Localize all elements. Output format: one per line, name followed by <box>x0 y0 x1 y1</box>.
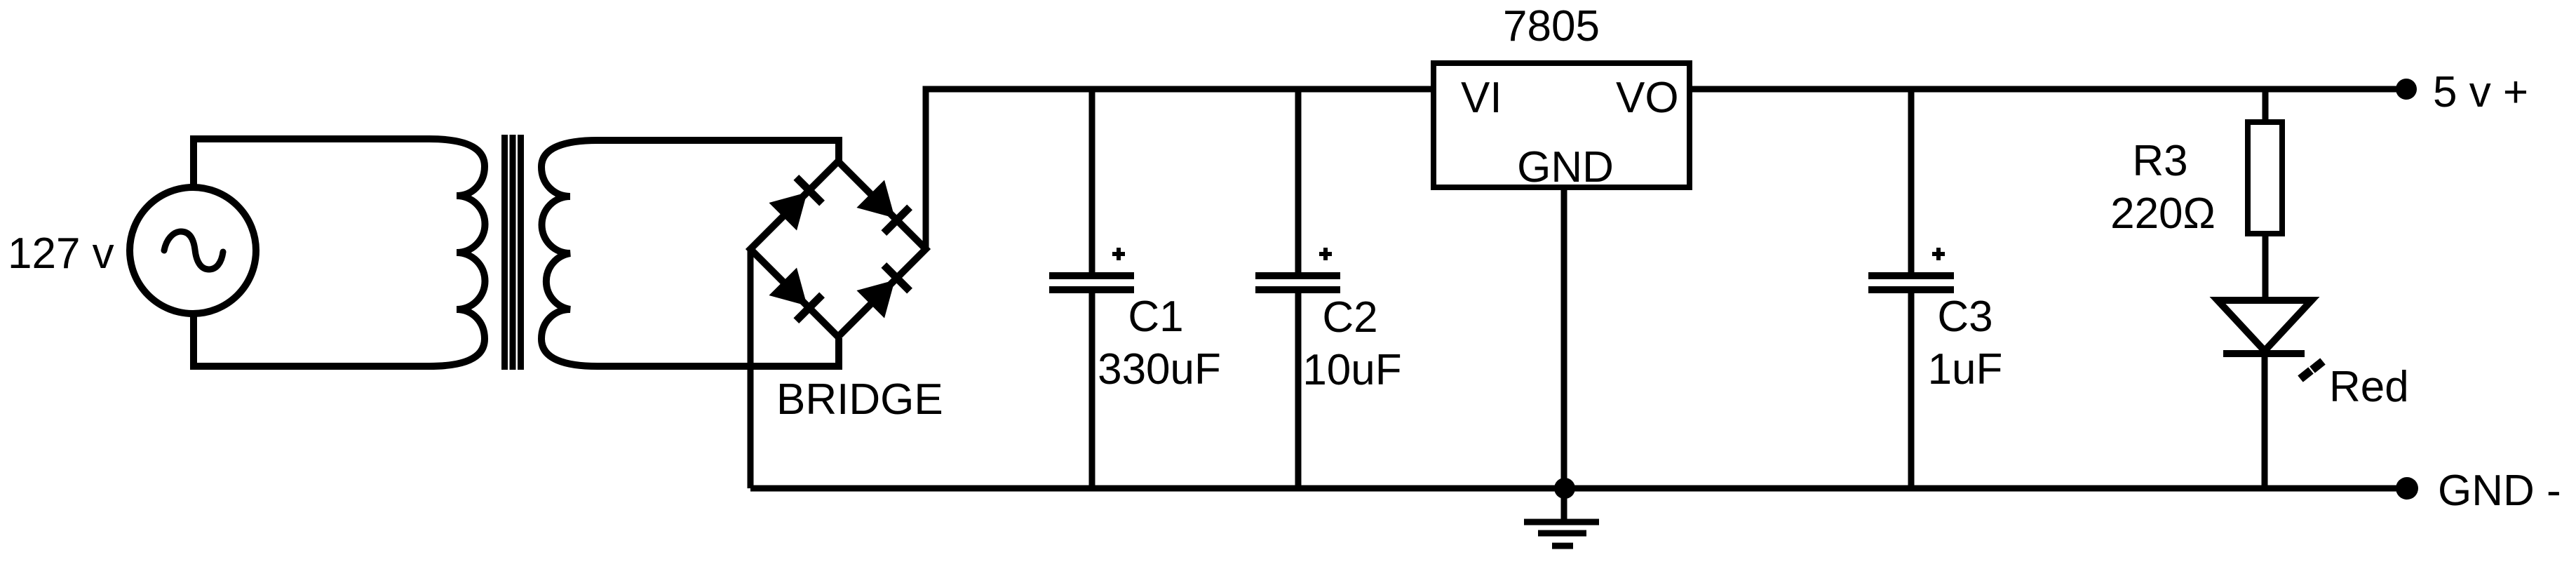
capacitor C2 bottom plate <box>1255 286 1340 293</box>
svg-text:1uF: 1uF <box>1928 345 2003 394</box>
diode D2 upper-right (top vertex to right vertex) <box>856 180 910 234</box>
LED cathode bar <box>2223 350 2305 357</box>
transformer core line 3 <box>518 135 524 370</box>
svg-text:VI: VI <box>1461 74 1502 122</box>
wire 7805 GND pin down to ground <box>1561 187 1567 522</box>
transformer core line 1 <box>501 135 508 370</box>
capacitor C3 top plate <box>1868 272 1954 279</box>
svg-text:GND: GND <box>1517 143 1614 192</box>
capacitor C1 top wire <box>1089 89 1095 276</box>
svg-text:5 v +: 5 v + <box>2433 68 2528 116</box>
ground symbol bar 1 <box>1524 519 1599 526</box>
diode D1 upper-left (left vertex to top vertex) <box>769 176 823 230</box>
ground symbol bar 2 <box>1538 530 1586 537</box>
sine wave inside AC source <box>164 232 223 269</box>
LED light dash 2 <box>2312 361 2323 370</box>
C3 polarity plus <box>1932 248 1945 260</box>
capacitor C1 bottom wire <box>1089 290 1095 488</box>
ground terminal dot <box>2396 477 2418 500</box>
LED D5 triangle <box>2218 300 2312 351</box>
diode D3 lower-left (left vertex to bottom vertex) <box>769 267 823 321</box>
wire R3 to LED <box>2263 234 2269 300</box>
svg-text:GND -: GND - <box>2438 467 2561 515</box>
resistor R3 body <box>2248 122 2282 234</box>
svg-text:Red: Red <box>2329 363 2409 411</box>
svg-text:C2: C2 <box>1322 293 1377 342</box>
diode D4 lower-right (bottom vertex to right vertex) <box>856 264 910 318</box>
svg-text:7805: 7805 <box>1503 2 1600 51</box>
transformer T1 secondary winding + wires to bridge <box>541 140 839 366</box>
capacitor C2 top wire <box>1295 89 1302 276</box>
capacitor C3 bottom wire <box>1908 290 1915 488</box>
capacitor C2 bottom wire <box>1295 290 1302 488</box>
svg-text:127 v: 127 v <box>8 229 114 278</box>
svg-text:10uF: 10uF <box>1302 346 1401 394</box>
top rail from 7805 VO to output terminal <box>1692 86 2406 93</box>
transformer core line 2 <box>510 135 516 370</box>
junction dot at ground rail <box>1554 478 1575 499</box>
wire LED to bottom rail <box>2262 354 2268 488</box>
capacitor C1 top plate <box>1049 272 1134 279</box>
resistor R3 top wire <box>2263 89 2269 122</box>
svg-text:BRIDGE: BRIDGE <box>776 375 943 424</box>
wire + transformer T1 primary winding <box>194 139 485 366</box>
output terminal dot 5v <box>2396 79 2417 100</box>
svg-text:VO: VO <box>1616 74 1679 122</box>
wire bridge - output down to bottom rail <box>748 249 754 488</box>
capacitor C3 top wire <box>1908 89 1915 276</box>
C1 polarity plus <box>1112 248 1125 260</box>
wire bridge + output up and top rail to 7805 VI <box>926 89 1431 249</box>
capacitor C3 bottom plate <box>1868 286 1954 293</box>
svg-text:R3: R3 <box>2132 137 2187 185</box>
svg-text:220Ω: 220Ω <box>2110 189 2216 238</box>
AC source V1 <box>130 187 256 314</box>
svg-text:C1: C1 <box>1128 293 1183 341</box>
LED light dash 1 <box>2300 370 2311 379</box>
C2 polarity plus <box>1319 248 1332 260</box>
bottom rail (ground rail) <box>750 486 2407 492</box>
bridge rectifier diamond <box>750 161 926 337</box>
svg-text:330uF: 330uF <box>1098 345 1221 394</box>
capacitor C1 bottom plate <box>1049 286 1134 293</box>
svg-text:C3: C3 <box>1937 293 1992 341</box>
capacitor C2 top plate <box>1255 272 1340 279</box>
regulator U1 7805 box <box>1434 63 1690 187</box>
ground symbol bar 3 <box>1552 543 1573 549</box>
